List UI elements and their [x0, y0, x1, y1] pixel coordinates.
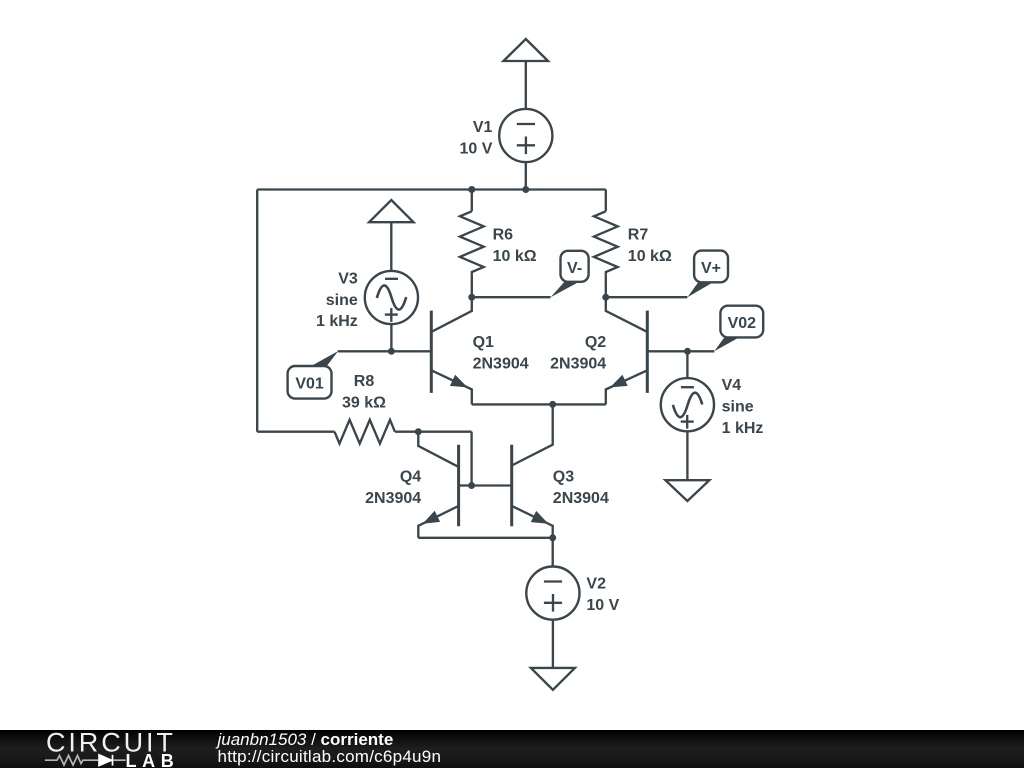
- label R7 10 kOhm: [628, 226, 672, 264]
- svg-text:1 kHz: 1 kHz: [316, 313, 358, 330]
- svg-text:10 V: 10 V: [459, 140, 492, 157]
- label V3 sine 1 kHz: [316, 271, 358, 331]
- svg-text:10 V: 10 V: [586, 597, 619, 614]
- svg-text:2N3904: 2N3904: [365, 490, 421, 507]
- wire Q4 collector-base tie: [418, 432, 471, 486]
- voltage source V4 sine: [661, 351, 714, 431]
- wire emitter rail Q1-Q2: [472, 403, 606, 405]
- svg-text:V3: V3: [338, 271, 358, 288]
- wire left loop vertical: [256, 190, 258, 432]
- svg-text:10 kΩ: 10 kΩ: [493, 248, 537, 265]
- svg-text:2N3904: 2N3904: [473, 356, 529, 373]
- svg-text:39 kΩ: 39 kΩ: [342, 395, 386, 412]
- label R8 39 kOhm: [342, 373, 386, 411]
- svg-text:10 kΩ: 10 kΩ: [628, 248, 672, 265]
- svg-text:V1: V1: [473, 119, 493, 136]
- voltage source V1: [499, 109, 552, 162]
- flag V02: [714, 306, 763, 352]
- power symbol above V3: [369, 200, 413, 271]
- wire V4 to ground: [686, 431, 688, 480]
- power symbol VDD top: [504, 39, 549, 109]
- node junction V1/rail: [522, 186, 529, 193]
- CircuitLab logo: [40, 731, 180, 768]
- transistor Q2 (mirrored): [606, 297, 688, 404]
- wire V3 to base rail: [390, 324, 392, 351]
- wire left loop bottom to R8: [257, 431, 334, 433]
- footer bar: [0, 730, 1024, 768]
- svg-text:V-: V-: [567, 260, 582, 277]
- flag V+: [687, 251, 728, 298]
- svg-text:Q4: Q4: [400, 468, 421, 485]
- node junction emitter rail/Q3: [549, 401, 556, 408]
- voltage source V2: [526, 538, 579, 620]
- flag V01: [288, 351, 339, 399]
- svg-text:Q3: Q3: [553, 468, 574, 485]
- transistor Q1: [431, 297, 472, 404]
- wire V+ node: [606, 296, 688, 298]
- ground below V4: [665, 480, 709, 501]
- transistor Q3: [472, 404, 553, 537]
- label Q2 2N3904: [550, 334, 606, 372]
- node junction Q2 base/V4: [684, 348, 691, 355]
- label Q1 2N3904: [473, 334, 529, 372]
- node junction R8/Q4: [415, 428, 422, 435]
- label Q3 2N3904: [553, 468, 609, 506]
- flag V-: [551, 251, 589, 297]
- svg-text:sine: sine: [326, 292, 358, 309]
- wire V2 to ground: [552, 620, 554, 668]
- svg-text:1 kHz: 1 kHz: [722, 420, 764, 437]
- node junction Q3/Q4 bases: [468, 482, 475, 489]
- wire Q1 base: [338, 350, 432, 352]
- node junction V3/base wire: [388, 348, 395, 355]
- wire top rail: [257, 188, 606, 190]
- resistor R6: [460, 190, 484, 298]
- node junction R6/Q1 collector: [468, 294, 475, 301]
- node junction R7/Q2 collector: [602, 294, 609, 301]
- label V4 sine 1 kHz: [722, 377, 764, 437]
- transistor Q4 (mirrored): [418, 432, 471, 538]
- ground below V2: [531, 668, 575, 690]
- svg-text:Q1: Q1: [473, 334, 494, 351]
- svg-text:V2: V2: [586, 576, 606, 593]
- svg-text:2N3904: 2N3904: [553, 490, 609, 507]
- svg-text:2N3904: 2N3904: [550, 356, 606, 373]
- svg-text:R7: R7: [628, 226, 649, 243]
- svg-text:R6: R6: [493, 226, 514, 243]
- node junction R6/rail: [468, 186, 475, 193]
- wire V1 to top rail: [525, 162, 527, 189]
- resistor R8: [335, 420, 395, 444]
- label V1 10 V: [459, 119, 492, 157]
- wire R8 to Q4 node: [395, 431, 418, 433]
- wire V02 stub: [688, 350, 715, 352]
- svg-text:sine: sine: [722, 399, 754, 416]
- voltage source V3 sine: [365, 271, 418, 324]
- label R6 10 kOhm: [493, 226, 537, 264]
- resistor R7: [594, 190, 618, 298]
- svg-text:V02: V02: [728, 315, 757, 332]
- svg-text:LAB: LAB: [126, 751, 180, 768]
- node junction rail/V2: [549, 534, 556, 541]
- label V2 10 V: [586, 576, 619, 614]
- svg-text:V01: V01: [295, 376, 324, 393]
- svg-text:R8: R8: [354, 373, 375, 390]
- svg-text:V4: V4: [722, 377, 742, 394]
- svg-text:Q2: Q2: [585, 334, 606, 351]
- wire mirror emitter rail: [418, 537, 552, 539]
- wire V- node: [472, 296, 551, 298]
- label Q4 2N3904: [365, 468, 421, 506]
- svg-text:V+: V+: [701, 260, 721, 277]
